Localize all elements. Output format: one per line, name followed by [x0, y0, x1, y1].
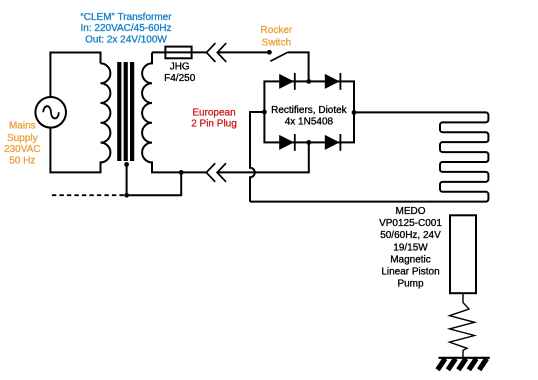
- svg-text:Mains: Mains: [9, 121, 36, 132]
- svg-text:European: European: [192, 108, 235, 119]
- svg-text:Supply: Supply: [7, 133, 38, 144]
- svg-text:Rectifiers, Diotek: Rectifiers, Diotek: [271, 105, 348, 116]
- svg-text:4x 1N5408: 4x 1N5408: [285, 117, 334, 128]
- svg-text:“CLEM” Transformer: “CLEM” Transformer: [80, 12, 172, 23]
- svg-text:50/60Hz, 24V: 50/60Hz, 24V: [380, 230, 441, 241]
- svg-text:F4/250: F4/250: [164, 73, 196, 84]
- svg-text:19/15W: 19/15W: [393, 242, 428, 253]
- svg-text:50 Hz: 50 Hz: [9, 156, 35, 167]
- svg-text:Linear Piston: Linear Piston: [381, 267, 439, 278]
- svg-text:Pump: Pump: [397, 279, 424, 290]
- svg-text:Rocker: Rocker: [261, 25, 293, 36]
- svg-text:2 Pin Plug: 2 Pin Plug: [191, 119, 237, 130]
- svg-text:JHG: JHG: [170, 62, 190, 73]
- svg-text:Magnetic: Magnetic: [390, 254, 431, 265]
- svg-text:Switch: Switch: [262, 38, 291, 49]
- svg-text:VP0125-C001: VP0125-C001: [379, 218, 442, 229]
- svg-text:In: 220VAC/45-60Hz: In: 220VAC/45-60Hz: [81, 23, 172, 34]
- svg-text:230VAC: 230VAC: [4, 144, 41, 155]
- svg-text:MEDO: MEDO: [396, 206, 426, 217]
- svg-text:Out: 2x 24V/100W: Out: 2x 24V/100W: [85, 35, 167, 46]
